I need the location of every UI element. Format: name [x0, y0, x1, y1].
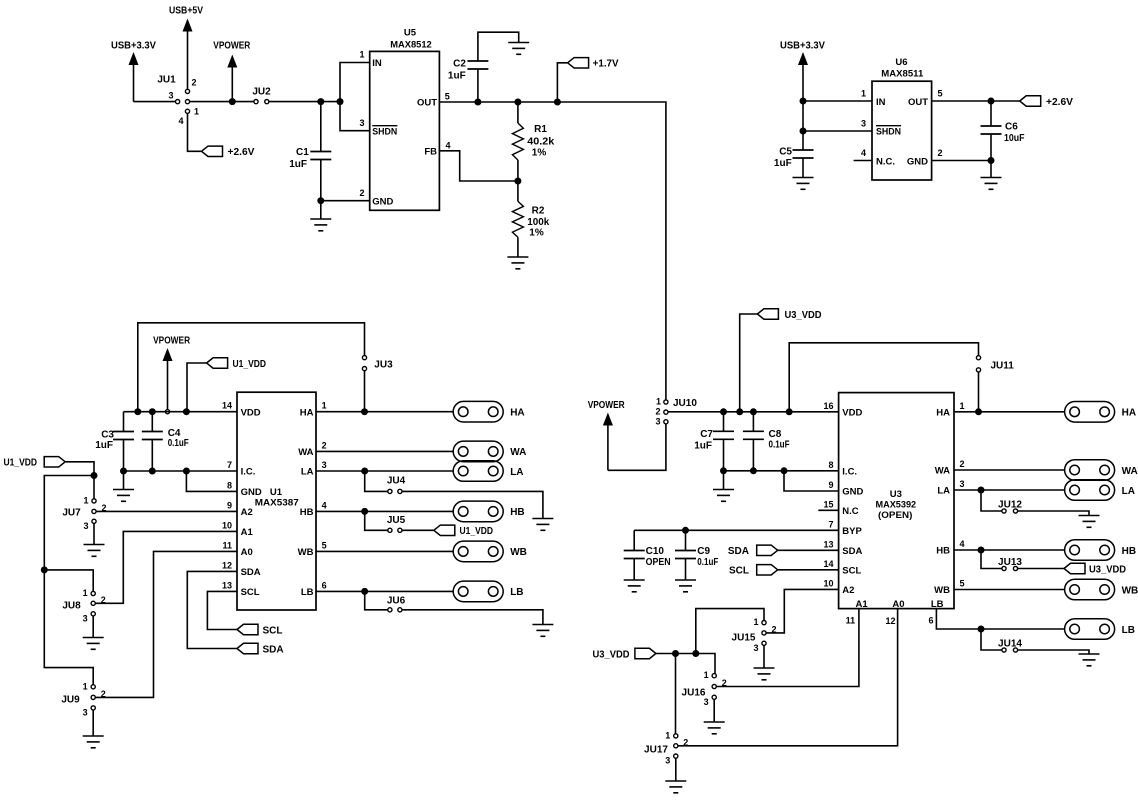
- svg-text:+2.6V: +2.6V: [1046, 97, 1073, 108]
- power arrow USB+3.3V: [129, 52, 139, 102]
- wire U1 GND pin 8: [186, 471, 237, 491]
- svg-text:SCL: SCL: [263, 625, 283, 636]
- wire JU3 to HA line: [364, 371, 366, 412]
- svg-text:4: 4: [322, 500, 327, 510]
- svg-text:(OPEN): (OPEN): [878, 510, 912, 521]
- svg-text:13: 13: [222, 580, 232, 590]
- capacitor C4: [142, 432, 163, 440]
- wire HB to JU5: [365, 511, 388, 530]
- svg-text:A0: A0: [892, 599, 904, 610]
- junction I.C. rail / C4: [149, 468, 156, 475]
- junction VPOWER / main rail: [229, 98, 236, 105]
- power arrow USB+3.3V (U6): [798, 52, 808, 150]
- svg-text:JU12: JU12: [998, 500, 1022, 511]
- svg-text:HB: HB: [300, 507, 314, 518]
- wire JU9 pin 2 to U1 A0: [95, 551, 237, 697]
- jumper JU10 pin 2: [664, 410, 668, 414]
- svg-text:OPEN: OPEN: [646, 557, 671, 568]
- capacitor C1: [310, 152, 331, 160]
- power arrow VPOWER (U1): [163, 348, 173, 409]
- svg-text:13: 13: [823, 539, 833, 549]
- net tag SCL (U3): [757, 565, 778, 575]
- wire C8 bottom: [752, 439, 754, 471]
- svg-text:LA: LA: [937, 486, 950, 497]
- svg-text:16: 16: [823, 401, 833, 411]
- jumper JU17 pin 1: [674, 734, 678, 738]
- junction I.C. rail / C7 / ground: [720, 467, 727, 474]
- svg-text:40.2k: 40.2k: [527, 137, 554, 148]
- wire +1.7V tag riser: [557, 63, 567, 102]
- svg-text:A0: A0: [241, 547, 253, 558]
- svg-text:2: 2: [960, 459, 965, 469]
- jumper JU2 pin 1: [254, 100, 258, 104]
- wire branch to U5 IN pin 1: [340, 63, 370, 102]
- svg-text:VDD: VDD: [241, 407, 261, 418]
- capacitor C10: [624, 551, 645, 559]
- svg-text:0.1uF: 0.1uF: [769, 440, 790, 451]
- svg-text:6: 6: [928, 615, 933, 625]
- svg-text:1: 1: [83, 681, 88, 691]
- ground below C7: [713, 490, 734, 502]
- junction I.C. rail / GND branch: [781, 467, 788, 474]
- svg-text:MAX5392: MAX5392: [876, 500, 917, 511]
- svg-text:4: 4: [446, 140, 451, 150]
- wire U1 LB to connector: [316, 590, 453, 592]
- svg-text:HA: HA: [510, 408, 524, 419]
- svg-text:SCL: SCL: [842, 565, 861, 576]
- IC U6 MAX8511 body: [872, 81, 932, 180]
- junction C1 / U5 GND: [317, 197, 324, 204]
- junction LA / JU12: [978, 487, 985, 494]
- svg-text:VDD: VDD: [842, 407, 862, 418]
- junction GND / C6: [988, 157, 995, 164]
- svg-text:3: 3: [861, 119, 866, 129]
- jumper JU3 pin 1: [362, 356, 366, 360]
- svg-text:1uF: 1uF: [289, 159, 307, 170]
- svg-text:GND: GND: [842, 487, 863, 498]
- wire JU1 to VPOWER junction to JU2: [190, 101, 254, 103]
- wire U6 SHDN pin 3: [803, 130, 872, 132]
- capacitor C2: [467, 61, 488, 69]
- svg-text:14: 14: [222, 401, 232, 411]
- wire U3 N.C stub: [818, 509, 838, 511]
- junction LA / JU4: [361, 468, 368, 475]
- svg-text:3: 3: [960, 479, 965, 489]
- ground below JU8: [83, 638, 104, 650]
- junction OUT / +1.7V riser: [554, 99, 561, 106]
- jumper JU6 pin 1: [388, 608, 392, 612]
- junction I.C. rail / C8: [750, 467, 757, 474]
- svg-text:SDA: SDA: [728, 546, 749, 557]
- junction VDD rail / U3_VDD riser: [736, 408, 743, 415]
- svg-text:WB: WB: [1122, 585, 1138, 596]
- svg-text:GND: GND: [372, 197, 393, 208]
- wire SDA tag to U3: [778, 549, 839, 551]
- net tag SCL (U1): [237, 624, 258, 634]
- junction HA / JU3: [361, 408, 368, 415]
- svg-text:R2: R2: [532, 205, 545, 216]
- jumper JU1 pin 3: [176, 100, 180, 104]
- power arrow VPOWER: [227, 55, 237, 102]
- capacitor C5: [793, 150, 814, 158]
- svg-text:WA: WA: [298, 447, 313, 458]
- jumper JU10 pin 3: [664, 420, 668, 424]
- svg-text:1: 1: [83, 495, 88, 505]
- connector HB (U1): [453, 501, 503, 522]
- wire U6 IN pin 1: [803, 100, 872, 102]
- ground below JU9: [83, 736, 104, 748]
- jumper JU13 pin 1: [1002, 566, 1006, 570]
- wire U1 SCL to tag: [207, 591, 237, 629]
- svg-text:JU7: JU7: [62, 507, 81, 518]
- svg-text:HA: HA: [936, 407, 950, 418]
- junction BYP / C9: [682, 527, 689, 534]
- svg-text:3: 3: [83, 521, 88, 531]
- svg-text:7: 7: [227, 460, 232, 470]
- wire ground stub below C7: [723, 471, 725, 490]
- wire JU8 pin 3 to ground: [92, 616, 94, 638]
- svg-text:USB+3.3V: USB+3.3V: [111, 41, 156, 52]
- wire VPOWER to JU10 pin 3: [608, 424, 666, 470]
- wire U1 SDA to tag: [187, 571, 237, 648]
- svg-text:LA: LA: [1122, 486, 1135, 497]
- ground below C3: [113, 490, 134, 502]
- svg-text:12: 12: [222, 560, 232, 570]
- jumper JU16 pin 1: [712, 674, 716, 678]
- svg-text:GND: GND: [907, 156, 928, 167]
- wire C3 top: [123, 412, 125, 432]
- jumper JU11 pin 1: [976, 356, 980, 360]
- svg-text:8: 8: [227, 480, 232, 490]
- svg-text:1: 1: [861, 89, 866, 99]
- connector LA (U3): [1065, 480, 1115, 501]
- wire C4 bottom: [151, 440, 153, 472]
- junction U5 IN-SHDN branch: [337, 98, 344, 105]
- wire U5 FB pin 4: [439, 151, 518, 181]
- svg-text:14: 14: [823, 559, 833, 569]
- svg-text:VPOWER: VPOWER: [588, 400, 626, 411]
- wire ground stub below I.C. rail: [123, 471, 125, 490]
- net tag +2.6V (U6): [1020, 96, 1041, 106]
- connector HA (U3): [1065, 402, 1115, 423]
- svg-text:C1: C1: [296, 147, 309, 158]
- jumper JU7 pin 3: [92, 519, 96, 523]
- svg-text:C8: C8: [769, 429, 782, 440]
- svg-text:WB: WB: [298, 547, 314, 558]
- resistor R2: [512, 201, 523, 237]
- svg-text:IN: IN: [876, 97, 886, 108]
- svg-text:1uF: 1uF: [774, 158, 792, 169]
- junction VDD rail / C8: [750, 408, 757, 415]
- svg-text:LB: LB: [510, 587, 523, 598]
- wire SCL tag to U3: [778, 569, 839, 571]
- wire JU9 pin 3 to ground: [92, 710, 94, 736]
- svg-text:1uF: 1uF: [694, 440, 712, 451]
- connector WB (U3): [1065, 579, 1115, 600]
- wire R1 bottom to FB node: [517, 160, 519, 181]
- svg-text:8: 8: [828, 460, 833, 470]
- svg-text:LA: LA: [510, 467, 523, 478]
- wire C10 top: [633, 530, 635, 550]
- svg-text:2: 2: [938, 148, 943, 158]
- ground below JU14: [1079, 654, 1100, 666]
- svg-text:U6: U6: [895, 57, 907, 68]
- svg-text:JU8: JU8: [62, 600, 81, 611]
- junction bottom rail / JU17 drop: [672, 650, 679, 657]
- svg-text:1uF: 1uF: [448, 70, 466, 81]
- svg-text:HB: HB: [936, 546, 950, 557]
- net tag +1.7V: [568, 58, 589, 68]
- junction FB / R1 / R2: [514, 178, 521, 185]
- wire drop to JU17 pin 1: [675, 654, 677, 734]
- net tag SDA (U3): [757, 545, 778, 555]
- wire U3 LB to connector: [936, 609, 1064, 629]
- svg-text:U3_VDD: U3_VDD: [1089, 564, 1126, 575]
- svg-text:USB+3.3V: USB+3.3V: [780, 41, 825, 52]
- svg-text:+2.6V: +2.6V: [228, 147, 255, 158]
- wire JU6 to ground: [402, 610, 543, 625]
- svg-text:SDA: SDA: [241, 567, 261, 578]
- ground below JU4: [532, 519, 553, 531]
- svg-text:1: 1: [194, 107, 199, 117]
- wire U3_VDD tag to VDD rail: [740, 314, 758, 412]
- svg-text:1: 1: [665, 730, 670, 740]
- svg-text:JU15: JU15: [732, 633, 756, 644]
- wire C8 top: [752, 412, 754, 432]
- svg-text:JU4: JU4: [387, 476, 406, 487]
- svg-text:JU13: JU13: [998, 557, 1022, 568]
- svg-text:N.C: N.C: [842, 506, 859, 517]
- jumper JU11 pin 2: [976, 368, 980, 372]
- svg-text:3: 3: [655, 416, 660, 426]
- svg-text:5: 5: [322, 540, 327, 550]
- net tag U3_VDD (top): [757, 309, 778, 319]
- jumper JU5 pin 1: [388, 528, 392, 532]
- svg-text:9: 9: [227, 500, 232, 510]
- net tag SDA (U1): [237, 643, 258, 653]
- net tag U1_VDD (left): [44, 457, 65, 467]
- jumper JU17 pin 2: [674, 744, 678, 748]
- jumper JU8 pin 1: [91, 591, 95, 595]
- jumper JU16 pin 2: [712, 684, 716, 688]
- jumper JU8 pin 3: [91, 612, 95, 616]
- net tag U1_VDD (top): [207, 358, 228, 368]
- svg-text:9: 9: [828, 480, 833, 490]
- ground below C5: [793, 178, 814, 190]
- wire JU17 pin 2 to U3 A0: [678, 609, 898, 746]
- svg-text:JU9: JU9: [61, 694, 80, 705]
- svg-text:LB: LB: [301, 587, 314, 598]
- junction LB / JU14: [978, 626, 985, 633]
- svg-text:3: 3: [83, 707, 88, 717]
- svg-text:SDA: SDA: [842, 546, 862, 557]
- wire C7 bottom: [723, 439, 725, 471]
- junction HB / JU13: [978, 547, 985, 554]
- svg-text:10: 10: [222, 520, 232, 530]
- ground below JU15: [754, 668, 775, 680]
- svg-text:+1.7V: +1.7V: [593, 59, 619, 70]
- jumper JU2 pin 2: [265, 100, 269, 104]
- wire JU14 to ground: [1018, 650, 1089, 654]
- wire C2 top to ground: [478, 32, 519, 61]
- svg-text:WA: WA: [510, 447, 526, 458]
- connector WB (U1): [453, 541, 503, 562]
- svg-text:JU11: JU11: [991, 360, 1015, 371]
- wire U1 I.C. rail: [124, 470, 238, 472]
- wire U3 HB to connector: [954, 549, 1065, 551]
- jumper JU6 pin 2: [398, 608, 402, 612]
- capacitor C7: [713, 431, 734, 439]
- wire U1 WA to connector: [316, 450, 453, 452]
- connector HA (U1): [453, 401, 503, 422]
- wire U1 top rail to JU3: [138, 323, 365, 412]
- svg-text:C9: C9: [697, 546, 710, 557]
- svg-text:JU3: JU3: [374, 359, 393, 370]
- svg-text:FB: FB: [424, 146, 437, 157]
- svg-text:1: 1: [704, 670, 709, 680]
- jumper JU7 pin 1: [92, 499, 96, 503]
- wire U3 WA to connector: [954, 469, 1065, 471]
- IC U1 MAX5387 body: [237, 392, 316, 610]
- wire branch to JU8 pin 1: [44, 570, 93, 591]
- IC U5 MAX8512 body: [370, 51, 440, 210]
- svg-text:1: 1: [322, 401, 327, 411]
- ground below JU6: [532, 625, 553, 637]
- wire U1_VDD left drop: [44, 476, 94, 685]
- svg-text:4: 4: [861, 148, 866, 158]
- svg-text:WA: WA: [935, 466, 950, 477]
- wire LB to JU6: [365, 591, 388, 609]
- svg-text:MAX8511: MAX8511: [881, 68, 924, 79]
- svg-text:C10: C10: [646, 546, 665, 557]
- svg-text:3: 3: [753, 643, 758, 653]
- jumper JU4 pin 1: [388, 489, 392, 493]
- wire HB to JU13: [981, 550, 1002, 569]
- jumper JU14 pin 1: [1002, 648, 1006, 652]
- jumper JU9 pin 1: [91, 685, 95, 689]
- svg-text:2: 2: [359, 188, 364, 198]
- svg-text:U3_VDD: U3_VDD: [593, 649, 630, 660]
- svg-text:5: 5: [938, 89, 943, 99]
- svg-text:JU5: JU5: [387, 515, 406, 526]
- svg-text:N.C.: N.C.: [876, 156, 895, 167]
- svg-text:A2: A2: [842, 585, 854, 596]
- svg-text:1: 1: [656, 396, 661, 406]
- svg-text:15: 15: [823, 499, 833, 509]
- wire U3 I.C. rail: [724, 470, 839, 472]
- svg-text:I.C.: I.C.: [241, 467, 256, 478]
- net tag U3_VDD (bottom): [635, 648, 656, 658]
- svg-text:GND: GND: [241, 487, 262, 498]
- svg-text:A1: A1: [856, 599, 869, 610]
- svg-text:SCL: SCL: [729, 566, 749, 577]
- resistor R1: [512, 123, 523, 160]
- wire VDD rail to JU11: [789, 343, 978, 412]
- junction VDD rail / U1_VDD: [183, 408, 190, 415]
- svg-text:HB: HB: [510, 507, 524, 518]
- ground below JU16: [704, 722, 725, 734]
- svg-text:1: 1: [753, 617, 758, 627]
- svg-text:JU17: JU17: [644, 744, 668, 755]
- svg-text:VPOWER: VPOWER: [213, 41, 251, 52]
- svg-text:C2: C2: [453, 59, 466, 70]
- svg-text:WA: WA: [1122, 466, 1138, 477]
- junction VDD rail / C7: [720, 408, 727, 415]
- wire U5 GND pin 2: [321, 200, 370, 202]
- svg-text:1: 1: [83, 588, 88, 598]
- wire U6 OUT to +2.6V tag: [932, 100, 1020, 102]
- svg-text:OUT: OUT: [908, 97, 928, 108]
- wire C10 bottom: [633, 559, 635, 581]
- svg-text:HA: HA: [1122, 408, 1136, 419]
- ground below C9: [675, 580, 696, 592]
- ground below JU17: [665, 781, 686, 793]
- svg-text:WB: WB: [934, 585, 950, 596]
- svg-text:VPOWER: VPOWER: [153, 336, 191, 347]
- svg-text:2: 2: [192, 78, 197, 88]
- wire JU4 to ground: [402, 491, 543, 518]
- jumper JU9 pin 2: [91, 695, 95, 699]
- svg-text:LB: LB: [1122, 625, 1135, 636]
- wire C5 bottom: [802, 158, 804, 178]
- svg-text:A2: A2: [241, 507, 253, 518]
- svg-text:U1_VDD: U1_VDD: [233, 359, 267, 370]
- wire JU16 pin 3 to ground: [713, 700, 715, 723]
- wire JU13 to U3_VDD tag: [1018, 568, 1064, 570]
- wire JU2 to U5 input node: [269, 101, 340, 103]
- svg-text:U3: U3: [890, 489, 902, 500]
- wire JU17 pin 3 to ground: [675, 758, 677, 781]
- wire JU10 pin 2 to U3 VDD: [668, 411, 839, 413]
- jumper JU15 pin 2: [762, 631, 766, 635]
- svg-text:JU2: JU2: [252, 87, 271, 98]
- jumper JU7 pin 2: [92, 509, 96, 513]
- jumper JU15 pin 3: [762, 641, 766, 645]
- connector WA (U1): [453, 441, 503, 462]
- junction bottom rail / JU15 riser: [692, 650, 699, 657]
- connector LA (U1): [453, 461, 503, 482]
- wire U1 LA to connector: [316, 470, 453, 472]
- wire JU7 pin 2 to U1 A2: [96, 510, 237, 512]
- svg-text:A1: A1: [241, 527, 254, 538]
- wire U1_VDD tag to VDD rail: [187, 363, 207, 412]
- svg-text:IN: IN: [372, 58, 382, 69]
- svg-text:C5: C5: [779, 146, 792, 157]
- svg-text:3: 3: [83, 613, 88, 623]
- svg-text:3: 3: [704, 697, 709, 707]
- jumper JU4 pin 2: [398, 489, 402, 493]
- wire C7 top: [723, 412, 725, 432]
- junction VDD rail / C4: [149, 408, 156, 415]
- wire U3 LA to connector: [954, 489, 1065, 491]
- net tag U1_VDD (JU5): [434, 525, 455, 535]
- svg-text:1: 1: [960, 401, 965, 411]
- wire R1 top: [517, 102, 519, 123]
- wire C1 bottom to GND node: [320, 160, 322, 220]
- wire U1 WB to connector: [316, 550, 453, 552]
- junction LB / JU6: [361, 588, 368, 595]
- wire JU5 to U1_VDD tag: [402, 529, 434, 531]
- wire C3 bottom: [123, 440, 125, 472]
- svg-text:12: 12: [885, 616, 895, 626]
- ground below C1: [310, 219, 331, 231]
- wire C9 bottom: [685, 559, 687, 581]
- wire U3 A2 to JU15: [766, 589, 838, 633]
- svg-text:11: 11: [222, 540, 232, 550]
- svg-text:LA: LA: [301, 467, 314, 478]
- svg-text:C3: C3: [101, 429, 114, 440]
- ground below R2: [507, 257, 528, 269]
